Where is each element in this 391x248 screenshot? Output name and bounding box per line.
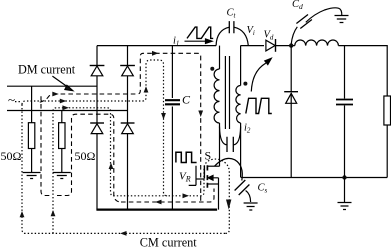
svg-text:C: C [182, 93, 191, 107]
svg-text:50Ω: 50Ω [1, 149, 22, 163]
svg-text:~: ~ [8, 92, 15, 107]
svg-text:DM current: DM current [18, 63, 76, 77]
svg-text:CM current: CM current [140, 236, 198, 248]
svg-text:Cd: Cd [292, 0, 303, 11]
svg-text:50Ω: 50Ω [75, 149, 96, 163]
svg-text:S: S [205, 149, 212, 163]
